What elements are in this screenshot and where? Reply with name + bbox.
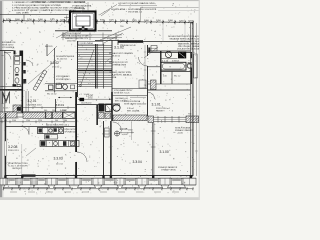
svg-text:NOVÁ PODLAHA: NOVÁ PODLAHA	[175, 126, 191, 129]
small room partition	[171, 72, 173, 85]
svg-text:600 600 900: 600 600 900	[46, 125, 56, 127]
scan edge right	[199, 0, 200, 200]
elevator inner wall line	[72, 14, 93, 29]
wardrobe chevron	[3, 92, 10, 102]
facade inner wall line	[5, 174, 193, 176]
svg-text:3.2.08: 3.2.08	[8, 145, 18, 149]
toilet room fixtures bottom of 3.2.02	[45, 83, 78, 85]
door arc into 3.3.05	[113, 122, 122, 131]
wall junction marks above facade	[4, 175, 6, 178]
central spine wall lower x76	[75, 127, 77, 152]
svg-text:CHODBA 1.0.01: CHODBA 1.0.01	[115, 97, 128, 100]
svg-text:OMÍTNOUT: OMÍTNOUT	[12, 167, 23, 170]
facade band bottom	[2, 184, 196, 186]
dark fixtures mid band	[46, 112, 52, 119]
elevator shaft outer walls	[70, 12, 96, 31]
hatch right corner	[186, 116, 199, 123]
window axis lines top right	[162, 24, 164, 42]
WC room top wall	[14, 55, 21, 57]
dim row below hatch band	[0, 121, 75, 123]
svg-text:1650: 1650	[188, 20, 194, 22]
stair bottom wall	[75, 104, 112, 106]
bathtub right	[161, 62, 186, 70]
scan noise speckle	[4, 2, 197, 194]
small box above bathroom	[151, 46, 157, 52]
svg-text:KER. DLAŽBA: KER. DLAŽBA	[127, 110, 140, 113]
corridor bathroom fixtures	[99, 104, 105, 112]
wall y41.5 right part	[143, 41, 191, 43]
stair central stringer	[94, 44, 96, 89]
wall x147.5 vertical	[147, 45, 149, 56]
facade band top	[2, 177, 196, 179]
svg-text:18.32 m2: 18.32 m2	[112, 55, 120, 57]
svg-text:2. KOTVENÍ DLE DETAILU VÝROBCE: 2. KOTVENÍ DLE DETAILU VÝROBCE SYSTÉMU	[12, 4, 61, 7]
bathroom top wall	[148, 50, 191, 52]
door frame lines	[25, 91, 27, 112]
washer circle	[165, 51, 171, 57]
partition wall x55	[54, 48, 56, 93]
main dimension line top	[3, 21, 193, 23]
staircase left wall	[77, 41, 79, 97]
elevator car	[76, 16, 90, 26]
svg-text:3.3.05: 3.3.05	[120, 127, 128, 131]
level mark circle	[115, 131, 120, 136]
wall y90 right	[148, 89, 191, 91]
black shower	[178, 52, 186, 59]
dim line inside 3.1.02	[144, 45, 146, 88]
staircase top box	[78, 42, 103, 45]
bottom dimension line	[3, 188, 193, 190]
wall between 3.3.04 and 3.1.00	[151, 123, 153, 176]
svg-text:2050: 2050	[179, 20, 185, 22]
partition wall stub x47	[46, 44, 48, 56]
hatched wall mid-right segment	[113, 115, 147, 121]
bathroom top wall y52.5	[148, 52, 191, 54]
central spine wall x76 upper	[75, 92, 77, 127]
svg-text:1350 900: 1350 900	[67, 41, 77, 43]
corridor line y95	[113, 94, 147, 96]
stair direction line	[81, 50, 95, 86]
svg-text:TL.100 mm: TL.100 mm	[57, 59, 67, 61]
wall x118 short	[117, 40, 119, 46]
svg-text:+0,000: +0,000	[122, 134, 128, 136]
window gap lines	[17, 112, 23, 114]
door frame blobs entry	[14, 51, 16, 55]
wall shaft to stair right	[98, 30, 113, 32]
svg-text:SPORÁK 600: SPORÁK 600	[65, 130, 76, 133]
wall under toilets	[45, 90, 78, 92]
svg-text:BÍLÁ: BÍLÁ	[112, 76, 117, 79]
scan edge top	[0, 0, 200, 1]
small box left of wall	[139, 80, 146, 88]
svg-text:WC 1.2: WC 1.2	[174, 75, 180, 77]
wardrobe row room 3.3.03	[40, 141, 79, 147]
extra dim slashes	[15, 20, 190, 23]
corridor wall x97 lower	[96, 105, 98, 125]
wall y40.5 from stair right	[95, 40, 118, 42]
svg-text:VÝMĚNA OKEN: VÝMĚNA OKEN	[112, 63, 127, 66]
svg-text:VIZ LEGENDA: VIZ LEGENDA	[2, 46, 15, 49]
hatched exterior wall left segment	[0, 112, 17, 118]
small ladder stair symbol	[33, 70, 47, 91]
wall shaft to left	[55, 30, 69, 32]
svg-text:3.3.04: 3.3.04	[133, 160, 142, 164]
svg-text:PARKETY: PARKETY	[156, 110, 165, 113]
wall under corridor y126.5	[5, 126, 76, 128]
outer dim line left	[2, 51, 4, 112]
window bays	[3, 185, 19, 188]
svg-text:VYMĚNIT VENTIL: VYMĚNIT VENTIL	[161, 168, 176, 171]
svg-text:POZOR ZMĚNA: POZOR ZMĚNA	[80, 42, 94, 45]
svg-text:900: 900	[44, 110, 47, 112]
wc right	[187, 63, 192, 68]
dim ticks left of elevator	[64, 17, 70, 19]
washbasin row	[13, 84, 17, 86]
svg-text:3.3.03: 3.3.03	[54, 157, 63, 161]
spine wall x112 lower piece	[111, 92, 113, 121]
door marks on left spine wall	[23, 62, 26, 66]
svg-text:1. VEŠKERÉ OTVORY PŘED ZAPOČET: 1. VEŠKERÉ OTVORY PŘED ZAPOČETÍM VÝROBY …	[12, 1, 86, 4]
svg-text:15x178x250: 15x178x250	[81, 103, 91, 105]
svg-text:22.5 m2: 22.5 m2	[56, 164, 63, 166]
svg-text:2400: 2400	[120, 20, 126, 22]
staircase right wall	[111, 40, 113, 97]
radiator near duct	[105, 128, 110, 137]
dark mark left of bathroom wall	[148, 48, 150, 53]
wall top of left rooms	[0, 50, 14, 52]
dark wall band left mid	[0, 89, 22, 91]
bathroom left wall dark	[160, 51, 162, 84]
lintel dark bar	[118, 40, 143, 43]
small dim arrows corridor	[58, 97, 72, 99]
svg-text:U TOHOTO PODLAŽÍ OSAZENÍ OKEN: U TOHOTO PODLAŽÍ OSAZENÍ OKEN	[118, 2, 155, 5]
svg-text:KUCHYŇ 6.04: KUCHYŇ 6.04	[55, 123, 67, 126]
wall y84	[148, 83, 191, 85]
svg-text:WC 1.6 m2: WC 1.6 m2	[47, 94, 56, 96]
stair landing band	[78, 70, 113, 72]
door arc right corridor	[148, 92, 155, 99]
svg-text:NOVÉ JÁDRO 2250x1600: NOVÉ JÁDRO 2250x1600	[124, 102, 146, 105]
duct walls x103 x110	[102, 121, 105, 177]
shelf line under washer	[162, 58, 178, 60]
svg-text:2.06: 2.06	[163, 75, 167, 77]
duct box	[151, 80, 157, 90]
svg-text:POKOJ 12.3: POKOJ 12.3	[8, 150, 19, 152]
wall stub x55 lower	[55, 99, 57, 112]
svg-text:OZN. DVEŘÍ: OZN. DVEŘÍ	[16, 11, 29, 14]
WC room left wall	[13, 56, 15, 87]
svg-text:2325: 2325	[109, 20, 115, 22]
svg-text:2475: 2475	[50, 19, 56, 21]
svg-text:VIZ DETAIL Č.5: VIZ DETAIL Č.5	[128, 10, 143, 13]
svg-text:3.1.02: 3.1.02	[114, 46, 124, 50]
faint partition x131.5	[131, 123, 133, 140]
svg-text:+0,020: +0,020	[177, 133, 183, 135]
outer dim line right edge	[195, 23, 197, 176]
svg-text:NOVÁ DLAŽBA: NOVÁ DLAŽBA	[111, 8, 126, 11]
WC fixtures	[15, 57, 20, 61]
svg-text:2600: 2600	[15, 19, 21, 21]
door arc kitchen	[21, 127, 29, 135]
leader diagonal to bathroom	[144, 47, 158, 58]
svg-text:VÝTAHOVÁ ŠACHTA: VÝTAHOVÁ ŠACHTA	[72, 5, 92, 8]
left outer wall	[4, 51, 6, 114]
svg-text:STÁVAJÍCÍ PARKETY: STÁVAJÍCÍ PARKETY	[175, 129, 194, 132]
black door hinge blob	[80, 98, 85, 101]
top edge text fragments	[32, 1, 46, 2]
scan edge left	[0, 0, 2, 200]
svg-text:STUPNĚ DŘEV.: STUPNĚ DŘEV.	[56, 78, 70, 81]
grid vertical x24	[23, 15, 25, 21]
leader diagonal	[100, 27, 131, 40]
dark marks under fixtures	[99, 113, 105, 119]
svg-text:NOVÉ SDK TL.125: NOVÉ SDK TL.125	[114, 91, 129, 94]
svg-text:900/2000 kg: 900/2000 kg	[74, 8, 85, 10]
dark sill bar above facade	[22, 174, 36, 176]
svg-text:CHODBA 8.11 m2: CHODBA 8.11 m2	[27, 103, 42, 106]
svg-text:1200: 1200	[26, 120, 30, 122]
svg-text:2250: 2250	[27, 19, 33, 21]
door swing spine	[77, 152, 87, 162]
corridor tick marks	[33, 106, 68, 109]
balcony rail right	[194, 54, 197, 78]
svg-text:900: 900	[55, 120, 58, 122]
svg-text:2250: 2250	[38, 120, 42, 122]
svg-text:KER. DLAŽBA: KER. DLAŽBA	[115, 100, 127, 103]
note text second row	[101, 10, 110, 17]
svg-text:2400: 2400	[38, 19, 44, 21]
svg-text:STÁVAJÍCÍ RADIÁTOR: STÁVAJÍCÍ RADIÁTOR	[158, 166, 178, 169]
door arc on left wall	[26, 60, 33, 66]
dimension ticks top	[3, 19, 194, 25]
svg-text:2425: 2425	[132, 20, 138, 22]
hatched wall left-2 segment	[23, 112, 46, 118]
elevator door marks	[79, 28, 82, 31]
svg-text:800/1970: 800/1970	[45, 46, 53, 48]
wall y67 left part	[148, 66, 161, 68]
roof line top right	[140, 7, 199, 9]
right exterior wall	[191, 23, 193, 177]
paper background	[0, 0, 200, 200]
scan edge bottom	[0, 197, 200, 200]
stair bottom dim row	[78, 98, 112, 100]
wall under WC	[0, 86, 22, 88]
svg-text:1500: 1500	[52, 110, 56, 112]
kitchen counter row	[38, 128, 64, 134]
svg-text:2100: 2100	[12, 120, 16, 122]
svg-text:1.0.02: 1.0.02	[84, 94, 91, 96]
svg-text:1500: 1500	[60, 19, 66, 21]
left outer wall lower	[5, 113, 7, 141]
svg-text:2400: 2400	[168, 20, 174, 22]
svg-text:VYBOURANÉ PŘÍČKY: VYBOURANÉ PŘÍČKY	[114, 89, 133, 92]
svg-text:2450: 2450	[156, 20, 162, 22]
second diagonal leader	[101, 33, 123, 45]
leader from shaft corner	[56, 31, 69, 38]
hatched wall right segment	[148, 116, 154, 122]
svg-text:3.1.00: 3.1.00	[160, 150, 169, 154]
svg-text:3.2.01: 3.2.01	[28, 99, 37, 103]
svg-text:3.1.01: 3.1.01	[152, 103, 161, 107]
note text top-center-right with leader	[100, 5, 117, 15]
entry door arc	[4, 53, 11, 60]
duct above left band	[13, 105, 21, 112]
corridor line y111	[5, 111, 76, 113]
right wall window/door marks	[191, 52, 193, 58]
svg-text:17.1 m2: 17.1 m2	[52, 67, 60, 69]
svg-text:3.2.05: 3.2.05	[3, 108, 8, 110]
wall grid line upper left	[0, 14, 69, 16]
kitchen extra appliances	[59, 129, 62, 132]
stair treads	[78, 45, 112, 86]
spine wall left x22	[22, 51, 24, 114]
wall under tub	[161, 71, 191, 73]
leader diagonal in room	[28, 60, 56, 84]
corridor line y107.5	[23, 107, 76, 109]
stair side stringer right	[103, 44, 105, 89]
bottom faint numbers	[10, 191, 17, 192]
leader vertical x140	[140, 8, 142, 22]
window in right band	[154, 116, 187, 118]
piers between windows	[0, 178, 6, 185]
